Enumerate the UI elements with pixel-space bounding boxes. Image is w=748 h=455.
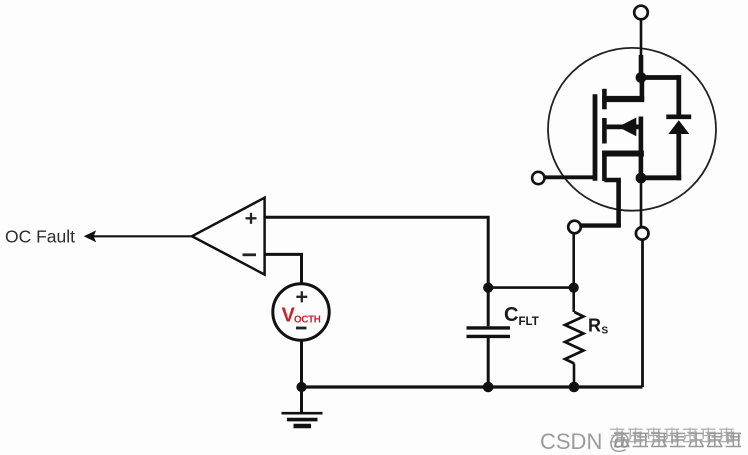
wire: drain terminal down [640, 20, 643, 57]
wire: RS top to Kelvin source terminal [572, 234, 575, 288]
terminal: drain (top) [634, 6, 648, 20]
wire: gate lead [545, 175, 596, 179]
svg-text:R: R [588, 315, 601, 335]
diode D1 (body diode) [641, 75, 691, 180]
transistor Q1 body arrow [607, 118, 641, 137]
transistor Q1 channel dash 3 [602, 151, 607, 181]
voltage source VOCTH plus marker [296, 291, 307, 302]
transistor Q1 channel dash 1 [602, 89, 607, 110]
junction: drain node [636, 72, 647, 83]
wire: drain bold segment [639, 55, 644, 78]
terminal: source (bottom) [636, 227, 649, 240]
watermark pseudo-CJK layer 2 (offset ghost) [610, 428, 734, 443]
svg-text:FLT: FLT [519, 316, 539, 328]
ground [282, 387, 323, 426]
junction: CFLT top [483, 283, 493, 293]
resistor RS [565, 288, 584, 387]
transistor Q1 kelvin source lead [581, 180, 621, 226]
diode D1 arrow triangle [668, 120, 689, 134]
svg-text:OC Fault: OC Fault [5, 227, 75, 247]
wire: source node to source terminal [640, 178, 643, 226]
wire: VOCTH to ground rail [300, 340, 303, 387]
transistor Q1 gate line [593, 94, 598, 181]
wire: bottom rail up to source terminal [641, 241, 644, 388]
wire: sense node CFLT to RS [488, 286, 574, 289]
op-amp U1 minus input marker [243, 253, 257, 256]
transistor Q1 source connection bar [602, 151, 644, 157]
wire: - input to VOCTH [265, 254, 302, 286]
op-amp U1 plus input marker [246, 213, 257, 224]
op-amp U1 comparator triangle [192, 198, 265, 275]
wire: ground rail [302, 385, 643, 388]
transistor Q1 package circle [548, 48, 716, 211]
transistor Q1 body-source vertical [639, 117, 644, 179]
junction: RS bottom [569, 382, 580, 393]
capacitor CFLT [467, 288, 511, 387]
terminal: Kelvin source [568, 221, 581, 234]
wire: comparator output to OC Fault [93, 235, 193, 237]
terminal: gate [532, 172, 544, 184]
junction: ground node [296, 382, 306, 392]
junction: RS top [569, 283, 579, 293]
voltage source VOCTH circle [273, 284, 329, 340]
wire: + input to sense node [265, 217, 489, 287]
voltage source VOCTH minus marker [296, 327, 307, 330]
output arrow head [84, 230, 97, 242]
svg-text:OCTH: OCTH [294, 315, 321, 326]
junction: source node [636, 173, 647, 184]
transistor Q1 drain connection bar [602, 76, 644, 101]
transistor Q1 channel dash 2 [602, 118, 607, 144]
junction: CFLT bottom [483, 382, 494, 393]
svg-text:S: S [602, 326, 609, 337]
svg-text:C: C [504, 304, 518, 326]
watermark pseudo-CJK layer 1 [614, 432, 741, 448]
